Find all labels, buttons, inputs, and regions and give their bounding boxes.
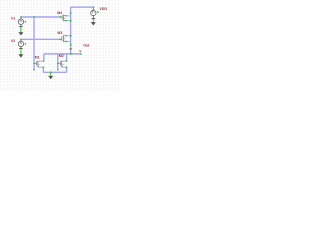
node V2 top [20,39,21,40]
ground under V1 [18,27,23,36]
junction Out at rail [70,53,72,55]
node M1 gate wire end [33,69,34,70]
svg-text:VDD: VDD [99,7,107,11]
wire Out horizontal [44,53,81,55]
node M4 source [65,20,66,21]
wire VDD top horizontal [71,6,94,8]
voltage source VDD [91,8,96,19]
svg-text:M3: M3 [57,31,62,35]
svg-text:M2: M2 [59,54,64,58]
wire M2 source drop [66,67,68,72]
wire M1 source drop [42,67,44,72]
node M3 gate [59,39,60,40]
node M3 drain [65,35,66,36]
out terminal arrow [79,50,82,52]
svg-text:M1: M1 [35,55,40,59]
svg-text:M4: M4 [57,11,62,15]
wire V2 horizontal to M3 gate [21,38,60,40]
svg-text:Out: Out [83,44,90,48]
node M1 source [43,67,44,68]
wire net V1 top horizontal [21,16,61,18]
node V1 top [20,16,21,17]
wire M3 drain stub [66,35,71,37]
wire vertical VDD rail [70,7,72,54]
voltage source V2 [18,40,23,49]
svg-text:V1: V1 [11,17,15,21]
junction VDD rail at M4 drain [70,12,72,14]
node M1 drain [43,60,44,61]
node M2 source [66,67,67,68]
wire M2 drain drop [66,54,68,61]
wire bottom source rail [43,71,66,73]
transistor M2 [58,61,66,68]
transistor M3 [60,35,66,42]
junction V1 wire / M1 gate feed [33,16,35,18]
wire M4 drain stub [66,15,71,17]
node dot V1 plus mark [25,21,27,23]
node M2 gate wire end [57,69,58,70]
node M1 gate [33,63,34,64]
node M2 gate [57,63,58,64]
junction bottom rail [50,72,52,74]
wire M3 source stub [66,41,71,43]
ground under VDD [91,19,96,26]
node dot VDD plus mark [97,11,99,13]
node M2 drain [66,60,67,61]
wire M4 source stub [66,20,71,22]
current arrow on VDD rail [69,48,72,51]
node M4 drain [65,15,66,16]
node VDD top [93,6,94,7]
wire M1 drain drop [43,54,45,61]
node dot V2 plus mark [25,43,27,45]
voltage source V1 [18,18,23,27]
junction VDD rail lower [70,44,72,46]
transistor M1 [34,61,43,68]
wire M2 gate drop [57,54,59,70]
junction VDD rail at M3 drain [70,35,72,37]
wire vertical M1 gate feed [33,17,35,70]
node M3 source [65,41,66,42]
ground bottom center [48,72,53,79]
ground under V2 [18,49,23,58]
junction Out wire / M2 drain drop [66,53,67,54]
node M4 gate [60,16,61,17]
node Out end [80,53,81,54]
transistor M4 [61,15,66,22]
svg-text:V2: V2 [11,39,15,43]
junction VDD rail at M4 source [70,20,72,22]
